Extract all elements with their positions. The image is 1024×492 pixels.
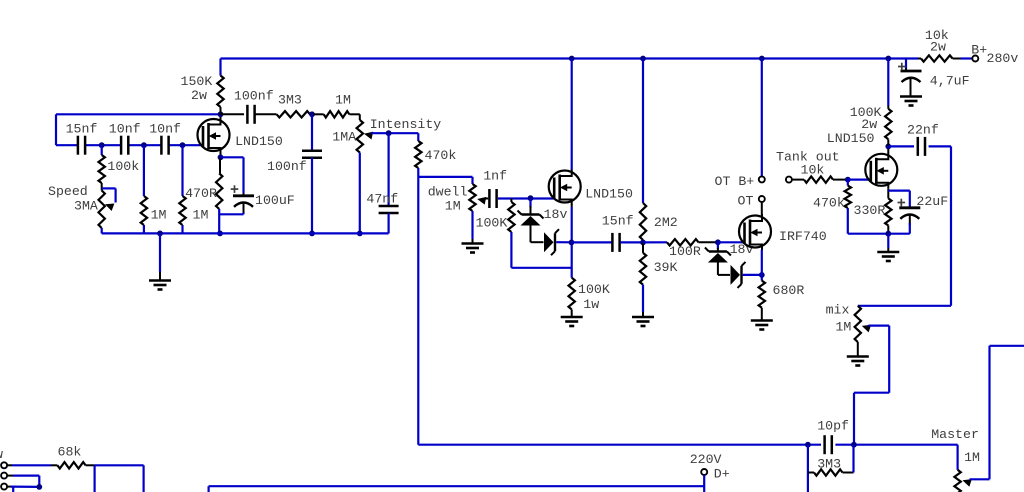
resistor 68k [51,462,95,468]
mosfet Q2 LND150 [549,169,581,205]
svg-text:15nf: 15nf [602,214,634,229]
wire input 2 [7,476,39,487]
ground 100K 1w [561,317,583,326]
pot 1MA Intensity [357,114,363,233]
node gate Q2 [528,195,534,201]
label dwell [428,184,468,199]
resistor 1M b [179,145,185,233]
pot mix wiper [854,322,889,445]
label 10k tank [801,163,825,178]
pot 3MA wiper [102,188,116,211]
pot Master wiper [961,346,1024,487]
resistor 2M2 [640,59,646,243]
capacitor 100nf shunt [302,114,322,233]
label 100K gate [476,216,508,231]
resistor 100K gate [508,199,571,268]
svg-text:100R: 100R [669,244,701,259]
node gate Q4 [845,177,851,183]
svg-text:22uF: 22uF [916,194,948,209]
ground 680R [751,321,773,330]
pot dwell 1M [469,184,475,211]
label 330R [854,203,886,218]
label 470R [185,186,217,201]
label 47nf [366,191,398,206]
label w clipped [0,447,3,462]
resistor 470R [216,157,222,233]
capacitor 22uF [888,191,920,234]
svg-text:LND150: LND150 [827,131,875,146]
capacitor 100nf coupling [221,105,277,124]
label 22nf [907,123,939,138]
label 100k [107,159,139,174]
svg-text:B+: B+ [971,43,987,58]
node rail/OT [759,56,765,62]
label 150K [181,74,213,89]
svg-text:mix: mix [826,303,850,318]
capacitor 47nf [379,130,399,233]
resistor 150K 2w [217,59,223,115]
wire block box [95,465,144,492]
wire Q4 gate [848,179,871,181]
label Master [931,427,979,442]
svg-text:15nf: 15nf [66,121,98,136]
capacitor 15nf [78,136,85,155]
wire Q4 source [887,188,889,198]
wire Q3 source [761,250,763,281]
svg-text:1M: 1M [151,207,167,222]
label Tank out [776,150,840,165]
resistor 680R [759,281,765,321]
label 10nf b [149,121,181,136]
label 100nf coupling [234,89,274,104]
node 10pf left [805,442,811,448]
node 330R bottom [885,231,891,237]
svg-text:330R: 330R [854,203,886,218]
svg-text:2M2: 2M2 [654,215,678,230]
ground mix [847,342,869,366]
wire dwell top [418,177,472,184]
node 15nf/2M2/39K [640,240,646,246]
wire bottom main [418,444,957,446]
resistor 10k tank [792,176,848,182]
terminal B+ 280v [972,56,978,62]
svg-text:220V: 220V [690,452,722,467]
svg-text:4,7uF: 4,7uF [930,73,970,88]
label B+ [971,43,987,58]
pot 3MA [99,191,105,234]
label 39K [654,260,678,275]
resistor 3M3 [277,111,313,117]
label 4,7uF plus [898,63,906,71]
label 4,7uF [930,73,970,88]
resistor 470k intensity [415,133,421,445]
zener D2 [544,229,572,255]
label 10nf a [109,121,141,136]
ground 39K [632,317,654,326]
mosfet Q3 IRF740 [739,214,771,250]
label 100uF plus [231,185,239,193]
label 68k [58,445,82,460]
mosfet Q4 LND150 [865,152,897,188]
svg-text:LND150: LND150 [235,134,283,149]
label mix [826,303,850,318]
terminal OT [759,196,765,202]
terminal input 1 [1,462,7,468]
node Q1 drain [218,111,224,117]
capacitor 1nf [489,189,496,208]
wire feedback top [56,113,221,115]
node Q3 source/zener [759,272,765,278]
resistor 100R [643,239,718,245]
label Intensity [370,117,442,132]
wire top B+ rail [221,57,972,59]
label 15nf b [602,214,634,229]
label LND150 Q2 [585,187,633,202]
wire bottom lower [209,486,705,492]
svg-text:3MA: 3MA [74,199,98,214]
ground left [149,233,171,289]
node rail gnd [157,231,163,237]
label 1nf [483,168,507,183]
svg-text:1M: 1M [964,450,980,465]
svg-text:100k: 100k [107,159,139,174]
svg-text:1M: 1M [835,320,851,335]
node 1MA rail [357,231,363,237]
label OT B+ [715,174,755,189]
pot Master 1M [954,445,960,492]
svg-text:470R: 470R [185,186,217,201]
terminal Tank out [786,177,792,183]
capacitor 100uF [220,157,254,214]
wire RC signal line [56,144,203,146]
node RC3 [180,142,186,148]
label 470k intensity [425,148,457,163]
svg-text:100uF: 100uF [255,193,295,208]
wire Q2 source [571,205,573,278]
node RC1 [99,142,105,148]
wire bottom rail [102,232,389,234]
resistor 330R [885,198,891,233]
svg-text:280v: 280v [987,51,1019,66]
svg-text:470k: 470k [813,196,845,211]
wire OT drop [761,59,763,177]
zener D4 [731,262,762,288]
label 100nf shunt [267,159,307,174]
svg-text:10nf: 10nf [109,121,141,136]
resistor 39K [640,242,646,317]
capacitor 4,7uF [901,59,922,97]
label 150K 2w [191,88,207,103]
label 1M a [151,207,167,222]
label 280v [987,51,1019,66]
capacitor 22nf [888,137,951,156]
label 100K 2w [850,105,882,132]
svg-text:1M: 1M [193,207,209,222]
node 3M3/1M [309,111,315,117]
node gate Q3 [715,239,721,245]
svg-text:150K: 150K [181,74,213,89]
svg-text:3M3: 3M3 [817,457,841,472]
svg-text:OT B+: OT B+ [715,174,755,189]
wire Q1 source [220,153,222,157]
label OT [738,194,754,209]
label 18v D3 [730,242,754,257]
label Master 1M [964,450,980,465]
label 10pf [817,419,849,434]
svg-text:100nf: 100nf [234,89,274,104]
terminal input 3 [1,484,7,490]
label LND150 Q1 [235,134,283,149]
label 100R [669,244,701,259]
capacitor 10nf a [121,136,128,155]
label 10k 2w [925,28,949,55]
svg-text:18v: 18v [544,207,568,222]
wire right drop [858,146,951,305]
label 1M c [335,92,351,107]
mosfet Q1 LND150 [198,118,230,154]
resistor 100K 1w [569,278,575,317]
node Q1 source [218,154,224,160]
label 22uF [916,194,948,209]
wire OT to drain [761,202,763,216]
node Q2 source [569,240,575,246]
label dwell 1M [445,198,461,213]
svg-text:10pf: 10pf [817,419,849,434]
wire Q2 drain [571,59,573,170]
terminal input 2 [1,473,7,479]
resistor 100K 2w [885,59,891,147]
svg-text:IRF740: IRF740 [779,229,827,244]
svg-text:39K: 39K [654,260,678,275]
label mix 1M [835,320,851,335]
ground dwell [462,211,484,253]
label 3M3 [278,93,302,108]
node rail/drain2 [569,56,575,62]
svg-text:w: w [0,447,3,462]
resistor 470k gate [845,180,910,234]
label 220V [690,452,722,467]
node 100nf rail [309,231,315,237]
svg-text:Intensity: Intensity [370,117,442,132]
svg-text:1M: 1M [335,92,351,107]
label IRF740 [779,229,827,244]
svg-text:LND150: LND150 [585,187,633,202]
capacitor 10pf [825,435,832,454]
wire input 3 [7,487,39,492]
label 15nf [66,121,98,136]
svg-text:D+: D+ [714,467,730,482]
svg-text:2w: 2w [930,40,946,55]
svg-text:3M3: 3M3 [278,93,302,108]
svg-text:Master: Master [931,427,979,442]
svg-text:10k: 10k [801,163,825,178]
label 100K 1w [578,282,610,312]
wire input 1 [7,464,51,466]
svg-text:1MA: 1MA [332,129,356,144]
label 1M b [193,207,209,222]
svg-text:22nf: 22nf [907,123,939,138]
svg-text:dwell: dwell [428,184,468,199]
svg-text:1nf: 1nf [483,168,507,183]
svg-text:OT: OT [738,194,754,209]
svg-text:10nf: 10nf [149,121,181,136]
capacitor 10nf b [161,136,168,155]
label 2M2 [654,215,678,230]
wire D+ drop [703,475,705,492]
svg-text:100K: 100K [476,216,508,231]
label LND150 Q4 [827,131,875,146]
svg-text:470k: 470k [425,148,457,163]
terminal 220V D+ [701,469,707,475]
label 18v D1 [544,207,568,222]
node RC2 [141,142,147,148]
svg-text:47nf: 47nf [366,191,398,206]
pot dwell wiper [476,195,488,205]
svg-text:100K: 100K [578,282,610,297]
label 1MA [332,129,356,144]
svg-text:680R: 680R [773,283,805,298]
node 10pf right [851,442,857,448]
ground Q4 [877,234,899,261]
label 470k gate [813,196,845,211]
zener D3 18v [705,242,731,275]
resistor 3M3 b [808,445,854,492]
svg-text:2w: 2w [191,88,207,103]
label 3M3 b [817,457,841,472]
wire dwell gate [498,197,554,199]
node rail/LND150c [885,56,891,62]
node rail/2M2 [640,56,646,62]
svg-text:1M: 1M [445,198,461,213]
svg-text:Speed: Speed [48,184,88,199]
resistor 10k 2w [918,55,961,61]
wire Q4 drain [887,146,889,152]
svg-text:1w: 1w [583,297,599,312]
label 100uF [255,193,295,208]
ground 4,7uF [900,97,922,106]
wire Q3 gate [718,241,744,243]
svg-text:100nf: 100nf [267,159,307,174]
resistor 1M a [141,145,147,233]
wire feedback left drop [55,114,57,145]
label 22uF plus [898,199,906,207]
resistor 1M c [313,111,360,117]
label 680R [773,283,805,298]
svg-text:2w: 2w [861,117,877,132]
capacitor 15nf b [572,233,644,252]
label 3MA [74,199,98,214]
pot 1MA wiper [363,130,418,140]
terminal OT B+ [759,176,765,182]
node Q4 drain [885,144,891,150]
node 470R rail [217,231,223,237]
label D+ [714,467,730,482]
svg-text:68k: 68k [58,445,82,460]
pot mix 1M [855,306,861,342]
label Speed [48,184,88,199]
zener D1 18v [518,199,544,243]
node input 2/3 [36,484,42,490]
wire Q1 drain [220,114,222,124]
resistor 100k [99,145,105,190]
